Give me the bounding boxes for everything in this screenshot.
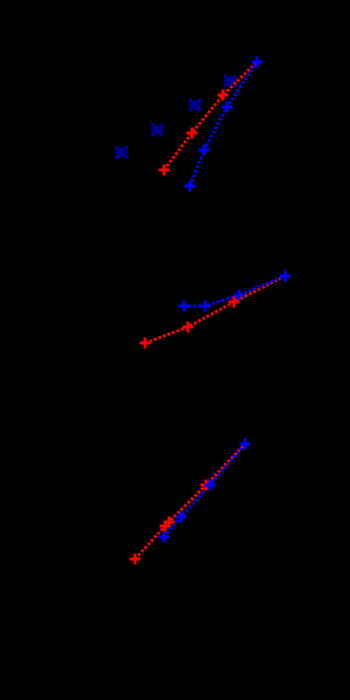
red data point (169,522)	[164, 517, 175, 528]
red data point (165,526)	[160, 521, 171, 532]
blue data point (285,276)	[280, 271, 291, 282]
red data point (192,133)	[187, 128, 198, 139]
red data point (145,343)	[140, 338, 151, 349]
red data point (135,559)	[130, 554, 141, 565]
red data point (245,444)	[240, 439, 251, 450]
blue data point (210,485)	[205, 480, 216, 491]
blue dotted line panel3	[164, 444, 245, 537]
navy star A3	[189, 99, 202, 112]
red data point (164,170)	[159, 165, 170, 176]
navy star A4	[224, 75, 237, 88]
blue data point (239,295)	[234, 290, 245, 301]
red dotted line panel3	[135, 444, 245, 559]
red dotted line panel2	[145, 276, 285, 343]
blue data point (227,107)	[222, 102, 233, 113]
blue data point (245,444)	[240, 439, 251, 450]
blue data point (164,537)	[159, 532, 170, 543]
blue dotted line panel1	[190, 62, 257, 186]
red data point (188,327)	[183, 322, 194, 333]
blue data point (190,186)	[185, 181, 196, 192]
blue data point (204,150)	[199, 145, 210, 156]
red data point (285,276)	[280, 271, 291, 282]
red data point (206,485)	[201, 480, 212, 491]
blue data point (184,306)	[179, 301, 190, 312]
blue data point (181,517)	[176, 512, 187, 523]
red data point (223,95)	[218, 90, 229, 101]
blue data point (205,306)	[200, 301, 211, 312]
blue data point (257,62)	[252, 57, 263, 68]
navy star A2	[151, 124, 164, 137]
red data point (234,302)	[229, 297, 240, 308]
blue dotted line panel2	[184, 276, 285, 306]
red data point (257,62)	[252, 57, 263, 68]
navy star A1	[115, 146, 128, 159]
red dotted line panel1	[164, 62, 257, 170]
